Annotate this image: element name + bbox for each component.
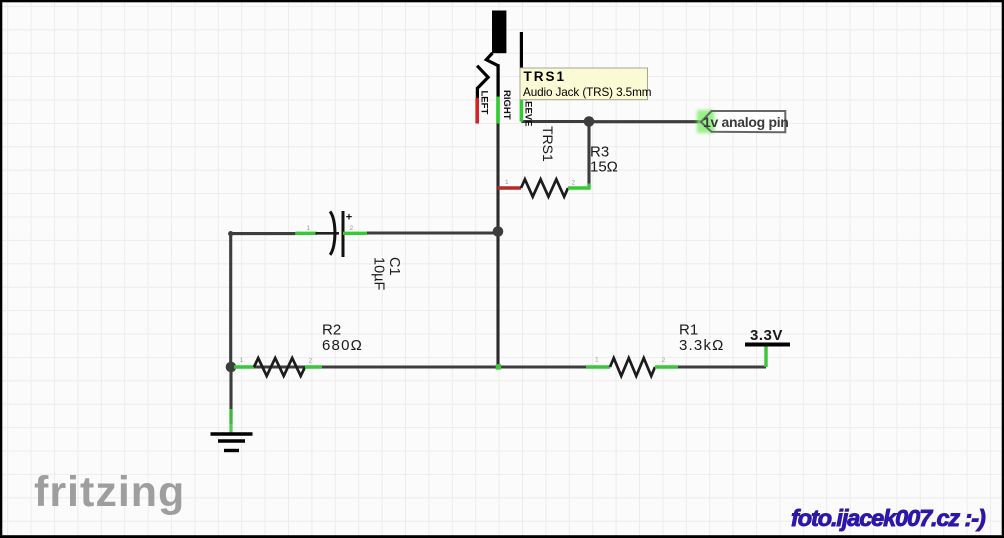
audio jack TRS1 bbox=[477, 11, 521, 99]
resistor R1 bbox=[586, 357, 678, 377]
svg-text:2: 2 bbox=[662, 357, 666, 364]
node junction dot at capacitor/RIGHT line bbox=[493, 226, 504, 237]
svg-text:1: 1 bbox=[307, 225, 311, 232]
pin label LEFT bbox=[479, 91, 490, 115]
svg-text:1: 1 bbox=[240, 357, 244, 364]
svg-text:2: 2 bbox=[572, 180, 576, 187]
node 1v analog pin label bbox=[697, 110, 789, 133]
pin RIGHT (green) bbox=[496, 97, 500, 124]
wire capacitor right lead to RIGHT-line junction bbox=[367, 231, 498, 234]
svg-text:10µF: 10µF bbox=[371, 257, 387, 290]
ground bbox=[211, 372, 253, 451]
svg-text:Audio Jack (TRS) 3.5mm: Audio Jack (TRS) 3.5mm bbox=[523, 86, 651, 99]
svg-text:2: 2 bbox=[350, 225, 354, 232]
svg-text:TRS1: TRS1 bbox=[540, 126, 556, 162]
svg-text:TRS1: TRS1 bbox=[524, 69, 567, 84]
label R3 15Ω bbox=[590, 144, 618, 176]
svg-text:+: + bbox=[346, 212, 352, 224]
pin LEFT (red, unconnected) bbox=[475, 98, 479, 124]
wire sleeve to junction dot bbox=[521, 120, 589, 123]
svg-text:680Ω: 680Ω bbox=[322, 337, 363, 354]
wire bottom horizontal bus R2 to R1 bbox=[231, 365, 586, 368]
label TRS1 (rotated) bbox=[540, 126, 556, 162]
pin SLEEVE (green) bbox=[520, 97, 524, 122]
svg-text:RIGHT: RIGHT bbox=[501, 90, 512, 120]
wire capacitor left lead bbox=[231, 232, 296, 235]
tooltip TRS1 bbox=[520, 68, 651, 100]
pin label SLEEVE bbox=[523, 89, 534, 127]
label R2 680Ω bbox=[322, 322, 363, 354]
resistor R3 bbox=[498, 179, 590, 197]
wire R1 right lead to 3.3V bbox=[678, 365, 766, 368]
node junction dot at R2 left bbox=[226, 362, 237, 373]
photo watermark bbox=[791, 505, 986, 531]
svg-text:C1: C1 bbox=[386, 257, 402, 276]
resistor R2 bbox=[234, 357, 322, 376]
fritzing watermark bbox=[34, 468, 185, 516]
svg-text:1: 1 bbox=[595, 357, 599, 364]
power 3.3V symbol bbox=[745, 327, 790, 367]
wire junction dot down to R3 bbox=[587, 122, 590, 189]
svg-text:foto.ijacek007.cz :-): foto.ijacek007.cz :-) bbox=[791, 505, 986, 531]
node junction dot at sleeve wire bbox=[584, 116, 595, 127]
svg-text:3.3V: 3.3V bbox=[750, 327, 783, 344]
capacitor C1 bbox=[295, 211, 366, 257]
svg-text:fritzing: fritzing bbox=[34, 468, 185, 516]
svg-text:3.3kΩ: 3.3kΩ bbox=[679, 337, 725, 354]
pin label RIGHT bbox=[501, 90, 512, 120]
label C1 10µF (rotated) bbox=[371, 257, 403, 290]
node bendpoint at capacitor left lead bbox=[228, 231, 233, 236]
node green tick at x498 bus junction bbox=[496, 364, 501, 369]
svg-text:1: 1 bbox=[505, 179, 509, 186]
svg-text:1v analog pin: 1v analog pin bbox=[703, 114, 789, 130]
svg-text:LEFT: LEFT bbox=[479, 91, 490, 115]
wire left vertical from capacitor to R2 junction bbox=[229, 234, 232, 367]
wire RIGHT channel vertical (jack to bottom bus) bbox=[496, 64, 499, 367]
wire junction dot to analog pin label bbox=[589, 120, 701, 123]
svg-text:15Ω: 15Ω bbox=[590, 159, 618, 176]
svg-text:2: 2 bbox=[309, 358, 313, 365]
label R1 3.3kΩ bbox=[679, 322, 725, 354]
